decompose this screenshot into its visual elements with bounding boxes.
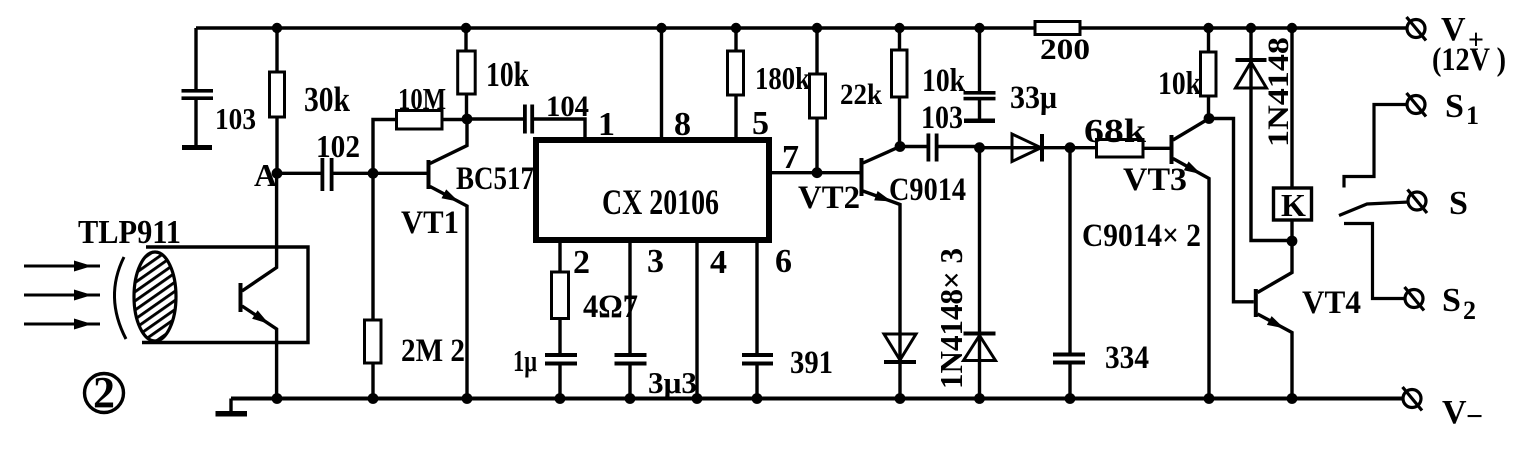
node top rail relay K [1287,23,1297,33]
resistor 30k [275,28,278,72]
svg-text:−: − [1466,400,1483,433]
svg-text:22k: 22k [840,78,882,111]
node top rail 33u [974,23,984,33]
resistor 180k (pin 5) [734,28,737,51]
pin 7 wire [769,171,860,174]
wire bottom rail [231,397,1404,401]
switch arm to terminal S [1339,202,1409,216]
node top rail 10k VT3 [1203,23,1213,33]
resistor 10k (VT2 collector) [898,28,901,50]
node bottom rail 1u [555,393,566,404]
diode 1N4148 (flyback, cathode up) [1251,28,1292,241]
TLP911 lens [114,257,126,339]
IC U1 CX20106 [536,140,769,240]
svg-text:104: 104 [546,90,589,123]
svg-text:2: 2 [93,368,115,417]
terminal V- [1403,390,1421,408]
svg-text:VT2: VT2 [798,180,860,216]
wire node A to cap 102 [277,172,321,175]
resistor 10k (VT3 collector) [1207,28,1210,52]
svg-text:30k: 30k [304,80,350,119]
node VT1 collector [462,114,473,125]
svg-text:2: 2 [1463,296,1476,325]
svg-text:(12V ): (12V ) [1432,42,1506,78]
wire pin 8 [660,28,663,140]
svg-text:2M 2: 2M 2 [401,333,465,369]
svg-text:391: 391 [790,345,833,381]
node VT4 collector junction [1287,236,1298,247]
light arrow 2 [24,294,100,297]
svg-text:1N4148× 3: 1N4148× 3 [933,248,969,389]
resistor 68k [1070,146,1097,149]
wire top rail left segment [196,26,1035,30]
capacitor 102 [321,158,325,191]
svg-text:VT1: VT1 [401,205,459,241]
svg-text:C9014: C9014 [889,172,966,208]
node 334 junction [1065,142,1076,153]
wire down to up-diode [978,148,981,332]
svg-text:103: 103 [215,101,256,136]
relay K [1290,28,1293,188]
svg-text:S: S [1442,282,1461,319]
resistor 200 (series in top rail) [1035,22,1080,35]
TLP911 box [142,247,308,343]
node bottom rail 2M2 [368,393,379,404]
wire left drop to cap 103 [194,28,197,89]
node pin7 22k junction [812,167,823,178]
node top rail 22k [812,23,822,33]
capacitor 104 [523,105,527,134]
svg-text:2: 2 [573,244,590,281]
capacitor 391 [742,353,773,357]
svg-text:VT3: VT3 [1123,162,1187,198]
svg-text:10k: 10k [486,55,529,94]
svg-text:3: 3 [647,243,664,280]
svg-text:68k: 68k [1084,113,1146,150]
svg-text:3μ3: 3μ3 [648,365,697,400]
svg-text:8: 8 [674,106,691,143]
capacitor 1u [558,319,561,354]
node bottom rail TLP emitter [272,393,283,404]
svg-text:1μ: 1μ [513,343,537,378]
capacitor 103 (coupling) [900,145,927,148]
capacitor 33u [978,28,981,91]
node base VT1 junction [368,168,379,179]
pin 4 wire [695,240,698,399]
svg-text:1: 1 [598,106,615,143]
circled figure number 2 [85,374,124,413]
node bottom rail VT3 emitter [1204,393,1215,404]
terminal S2 [1344,224,1406,299]
resistor 2M2 [371,173,374,320]
diode horizontal (to 68k) [980,146,1071,149]
capacitor 103 (left) [182,89,214,93]
svg-text:180k: 180k [755,60,810,96]
wire junction up to 10M [373,120,397,174]
node bottom rail pin 4 [692,393,703,404]
resistor 10k (VT1 collector) [464,28,467,51]
svg-text:102: 102 [316,128,360,164]
svg-text:S: S [1445,88,1464,125]
diode down (VT2 emitter, 1N4148) [898,334,901,399]
node bottom rail VT2 diode [895,393,906,404]
svg-text:VT4: VT4 [1302,285,1361,321]
svg-text:10k: 10k [1158,66,1202,102]
svg-text:V: V [1442,394,1467,431]
node bottom rail VT4 emitter [1287,393,1298,404]
pin 3 wire [628,240,631,353]
node bottom rail 391 [752,393,763,404]
svg-text:C9014× 2: C9014× 2 [1082,218,1201,254]
svg-text:A: A [254,157,277,193]
resistor 10M [397,111,443,130]
pin 6 wire [755,240,758,353]
wire collector node to cap 104 [467,117,523,120]
svg-text:1: 1 [1466,101,1479,130]
node top rail flyback diode [1246,23,1256,33]
svg-text:6: 6 [775,243,792,280]
capacitor 334 [1068,148,1071,353]
svg-text:10k: 10k [922,63,966,99]
svg-text:7: 7 [782,139,799,176]
svg-text:334: 334 [1105,340,1149,376]
node VT2 collector [895,141,906,152]
node top rail 10k VT2 [894,23,904,33]
ground [229,399,232,412]
transistor VT1 BC517 [373,172,427,175]
svg-text:CX 20106: CX 20106 [602,182,719,222]
light arrow 3 [24,323,100,326]
capacitor 3u3 [615,353,647,357]
svg-text:K: K [1281,187,1306,223]
node bottom rail 334 [1065,393,1076,404]
phototransistor TLP911 [239,283,243,312]
wire top rail right segment [1080,26,1408,30]
svg-text:5: 5 [752,105,769,142]
svg-text:S: S [1449,185,1468,222]
transistor VT3 [1170,135,1174,164]
node A [272,168,283,179]
svg-text:103: 103 [921,100,963,136]
diode up (1N4148) [978,332,981,399]
svg-text:10M: 10M [398,81,446,116]
svg-text:200: 200 [1040,33,1090,66]
node top rail 30k [272,23,282,33]
svg-text:33μ: 33μ [1010,80,1057,116]
wire VT3 collector to VT4 base [1209,119,1254,302]
node bottom rail 3u3 [625,393,636,404]
resistor 22k [815,28,818,74]
node signal line junction [974,142,985,153]
node bottom rail up diode [974,393,985,404]
light arrow 1 [24,265,100,268]
terminal V+ [1407,20,1425,38]
node top rail 180k [731,23,741,33]
transistor VT2 C9014 [860,158,864,196]
resistor 4R7 (pin 2) [552,272,569,319]
node bottom rail VT1 emitter [462,393,473,404]
node top rail 10k [461,23,471,33]
terminal S1 [1344,105,1408,188]
node top rail pin 8 [656,23,666,33]
node VT3 collector [1204,113,1215,124]
svg-text:1N4148: 1N4148 [1262,37,1295,147]
pin 2 wire [558,240,561,272]
transistor VT4 [1254,289,1258,317]
svg-text:BC517: BC517 [456,161,534,197]
svg-text:4: 4 [710,244,727,281]
